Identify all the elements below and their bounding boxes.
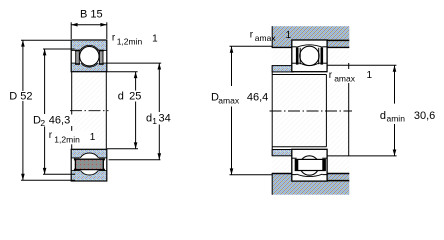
shaft surface line (upper) (272, 74, 326, 76)
svg-text:1: 1 (286, 30, 292, 41)
bottom section box (71, 149, 107, 181)
D2 dimension line (44, 49, 46, 114)
bore face line right (105, 72, 107, 150)
inner ring top edges (292, 62, 300, 64)
outer ring (top) (71, 40, 107, 50)
da extension bottom (327, 155, 397, 157)
shaft shoulder block (lower) (272, 150, 293, 156)
d1 dimension line (158, 63, 160, 112)
svg-text:34: 34 (159, 113, 171, 125)
svg-text:46,3: 46,3 (49, 114, 70, 126)
shaft shoulder block (upper) (272, 66, 293, 72)
ring edge lines (bottom) (71, 157, 80, 159)
inner ring top edge lines (71, 62, 80, 64)
outer raceway arc (bottom) (297, 174, 323, 176)
D dimension line (22, 40, 24, 91)
shield left (black) (296, 48, 299, 65)
svg-text:d: d (380, 110, 386, 122)
d1 extension bottom (109, 159, 161, 161)
label r amax 1 (top) (250, 30, 292, 43)
da measurement position line (348, 63, 350, 156)
B extension line right (106, 22, 108, 39)
shield face plate (gray) (75, 159, 103, 169)
shaft right end face (325, 75, 327, 147)
svg-text:d: d (118, 91, 124, 103)
svg-text:1,2min: 1,2min (117, 37, 143, 47)
right bearing bottom section (292, 149, 327, 181)
shield face plate (white) (295, 159, 325, 170)
outer ring bottom edges (292, 46, 297, 48)
svg-text:25: 25 (129, 91, 141, 103)
top section border (71, 40, 107, 72)
housing shoulder line (lower) (272, 173, 350, 175)
label d1 34 (145, 113, 172, 127)
D extension bottom (21, 179, 75, 181)
label Damax 46,4 (210, 89, 270, 106)
housing bore seat line (upper) (292, 39, 350, 41)
axis centerline (right figure) (270, 110, 353, 112)
outer raceway edge arc (bottom) (81, 171, 99, 175)
svg-text:amax: amax (334, 74, 356, 84)
label damin 30,6 (379, 106, 437, 124)
ball (300, 46, 319, 65)
Da extension bottom (230, 174, 273, 176)
d dimension line (135, 72, 137, 91)
raceway clearance wipe (bottom) (78, 153, 100, 175)
d extension top (107, 71, 138, 73)
housing bore seat line (lower) (292, 180, 350, 182)
housing left face (lower) (271, 173, 273, 195)
outer ring bottom edge lines (71, 49, 80, 51)
svg-text:amax: amax (255, 33, 277, 43)
B dimension line (71, 24, 107, 26)
inner ring (top) (71, 63, 107, 72)
svg-text:amin: amin (387, 114, 406, 124)
ball (top) (80, 46, 100, 65)
figure hatch background (272, 26, 350, 195)
Da extension top (230, 45, 273, 47)
shaft left end face (271, 65, 273, 156)
svg-text:1,2min: 1,2min (54, 135, 80, 145)
border (292, 40, 327, 72)
right bearing top section (292, 40, 327, 72)
svg-text:1: 1 (152, 33, 158, 44)
shield Z left (top section) (75, 50, 80, 65)
top section box (71, 40, 107, 72)
shield Z right (top section) (99, 50, 104, 65)
svg-text:1: 1 (152, 116, 157, 126)
B extension line left (70, 22, 72, 39)
shield notch corners (74, 158, 76, 160)
bottom section border (71, 149, 107, 181)
D2 extension top (43, 48, 75, 50)
shaft surface line (lower) (272, 146, 326, 148)
svg-text:1: 1 (90, 132, 96, 143)
raceway clearance wipe (78, 45, 100, 67)
inner raceway edge arcs (81, 63, 98, 67)
da dimension line (394, 65, 396, 103)
inner raceway edge arc (bottom) (80, 153, 98, 158)
outer raceway arc (297, 45, 323, 47)
label r 1,2min 1 (top) (112, 33, 158, 47)
housing shoulder line (upper) (272, 46, 350, 48)
Da dimension line (231, 46, 233, 86)
label d 25 (117, 91, 145, 103)
housing left face (upper) (271, 26, 273, 48)
bore hatch box (71, 72, 107, 150)
inner ring bottom edges (292, 157, 297, 159)
svg-text:2: 2 (40, 118, 45, 128)
svg-text:D 52: D 52 (9, 91, 32, 103)
shield right (black) (321, 48, 324, 65)
housing upper block (272, 26, 350, 47)
svg-text:B 15: B 15 (80, 9, 103, 21)
label r amax 1 (mid) (328, 69, 373, 84)
da extension top (327, 64, 396, 66)
axis centerline (left figure) (70, 110, 109, 112)
outer ring (bottom) (71, 171, 107, 181)
bore face line left (71, 72, 73, 150)
svg-text:46,4: 46,4 (247, 92, 268, 104)
label D2 46,3 (32, 114, 73, 128)
D2 extension bottom (43, 173, 75, 175)
svg-text:amax: amax (218, 95, 240, 105)
border (292, 149, 327, 181)
D extension top (21, 39, 71, 41)
ball (bottom) (300, 156, 319, 175)
d extension bottom (107, 148, 138, 150)
outer raceway edge arcs (80, 45, 99, 50)
outer ring top edges (292, 174, 297, 176)
d1 extension top (107, 62, 161, 64)
housing lower block (272, 174, 350, 195)
label r 1,2min 1 (bottom) (47, 130, 96, 145)
svg-text:1: 1 (367, 70, 373, 81)
svg-text:30,6: 30,6 (414, 110, 435, 122)
inner raceway arc (300, 63, 320, 66)
inner ring (bottom) (71, 149, 107, 158)
